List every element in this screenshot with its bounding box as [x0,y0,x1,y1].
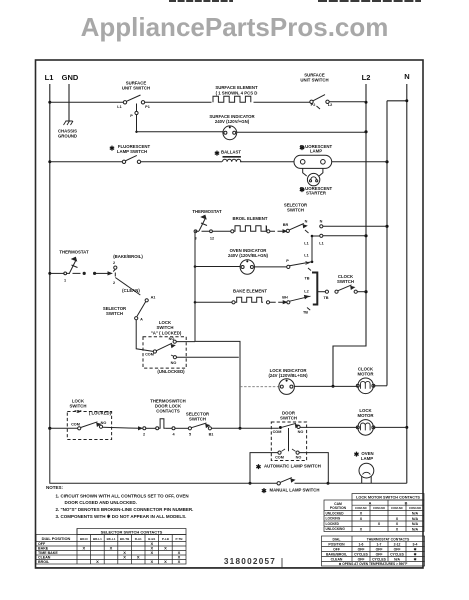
svg-text:A1: A1 [151,296,156,300]
svg-text:SWITCH: SWITCH [70,404,87,409]
svg-text:X: X [178,559,181,564]
svg-text:X: X [96,559,99,564]
svg-text:NO: NO [296,456,302,460]
svg-text:STARTER: STARTER [306,191,327,196]
svg-text:COM: COM [71,423,80,427]
svg-text:POSITION: POSITION [328,543,345,547]
svg-text:UNIT SWITCH: UNIT SWITCH [122,86,150,91]
svg-text:X: X [360,527,363,531]
svg-text:DIAL POSITION: DIAL POSITION [42,536,71,541]
svg-text:L1: L1 [319,242,323,246]
svg-text:THERMOSTAT CONTACTS: THERMOSTAT CONTACTS [367,537,410,541]
svg-text:TB: TB [323,296,328,300]
svg-text:5: 5 [189,433,191,437]
svg-text:L1: L1 [304,242,308,246]
svg-text:X: X [378,522,381,526]
svg-text:✱: ✱ [214,150,220,158]
svg-text:L1: L1 [45,73,54,82]
svg-text:UNLOCKING: UNLOCKING [326,527,346,531]
svg-text:SWITCH: SWITCH [157,325,174,330]
svg-text:NO: NO [169,337,175,341]
svg-text:4: 4 [172,433,175,437]
svg-text:"B": "B" [74,409,81,414]
svg-text:NO: NO [101,421,107,425]
svg-text:L2: L2 [304,290,308,294]
svg-text:NO: NO [171,361,177,365]
svg-text:X: X [360,517,363,521]
svg-text:N/A: N/A [412,517,419,521]
svg-text:GND: GND [62,73,79,82]
svg-text:✱: ✱ [414,558,417,562]
svg-text:L1: L1 [117,105,121,109]
svg-text:CYCLES: CYCLES [390,553,404,557]
svg-text:BK-TB: BK-TB [120,537,130,541]
svg-text:B1: B1 [209,433,214,437]
svg-text:COM-NO: COM-NO [373,506,386,510]
svg-text:LAMP: LAMP [310,149,322,154]
svg-text:✱: ✱ [256,463,262,471]
svg-text:POSITION: POSITION [330,506,347,510]
svg-text:L2: L2 [328,103,332,107]
svg-text:X: X [164,559,167,564]
svg-text:X: X [396,527,399,531]
svg-text:THERMOSTAT: THERMOSTAT [192,209,222,214]
svg-text:MANUAL LAMP SWITCH: MANUAL LAMP SWITCH [270,488,320,493]
svg-text:"A" ( LOCKED): "A" ( LOCKED) [151,331,182,336]
svg-text:OFF: OFF [394,548,401,552]
svg-text:OFF: OFF [358,548,365,552]
svg-text:P-TB: P-TB [176,537,184,541]
svg-text:LAMP SWITCH: LAMP SWITCH [117,149,147,154]
svg-text:OFF: OFF [358,558,365,562]
svg-text:1: 1 [64,279,66,283]
svg-text:NO: NO [298,430,304,434]
svg-text:COM: COM [273,430,282,434]
svg-text:12: 12 [210,237,214,241]
svg-text:✱: ✱ [299,144,305,152]
svg-text:BK-L1: BK-L1 [107,537,116,541]
svg-text:P: P [130,114,133,118]
svg-text:BAKE ELEMENT: BAKE ELEMENT [233,289,267,294]
svg-text:BR-N: BR-N [80,537,88,541]
svg-text:BALLAST: BALLAST [221,150,241,155]
svg-text:TB: TB [304,277,309,281]
svg-text:2: 2 [113,281,115,285]
svg-text:2. "NO"S" DENOTES BROKEN-LI: 2. "NO"S" DENOTES BROKEN-LINE CONNECTOR … [56,507,194,512]
svg-text:SWITCH: SWITCH [287,208,304,213]
svg-text:NOTES:: NOTES: [46,485,64,490]
svg-text:LOCKED: LOCKED [326,522,340,526]
svg-text:THERMOSTAT: THERMOSTAT [59,250,89,255]
svg-text:X: X [150,559,153,564]
svg-text:✱: ✱ [109,145,115,153]
svg-text:MOTOR: MOTOR [358,413,375,418]
svg-text:L1: L1 [304,254,308,258]
svg-text:(CLEAN): (CLEAN) [122,288,140,293]
svg-text:BR: BR [283,223,289,227]
svg-text:( LOCKED): ( LOCKED) [89,411,112,416]
svg-text:BAKE/BROIL: BAKE/BROIL [326,553,347,557]
svg-text:✱: ✱ [414,553,417,557]
svg-text:(BAKE/BROIL): (BAKE/BROIL) [113,254,143,259]
svg-text:N: N [404,72,409,81]
svg-text:CLEAN: CLEAN [331,558,343,562]
svg-text:CONTACTS: CONTACTS [156,409,180,414]
svg-text:LOCKING: LOCKING [326,517,341,521]
svg-text:OFF: OFF [376,553,383,557]
svg-text:X: X [360,512,363,516]
svg-text:A: A [140,318,143,322]
svg-text:240V (120V/+GN): 240V (120V/+GN) [215,119,250,124]
svg-text:N/A: N/A [412,512,419,516]
svg-text:BH: BH [282,296,288,300]
svg-text:✱: ✱ [261,487,267,495]
svg-text:SELECTOR SWITCH CONTACTS: SELECTOR SWITCH CONTACTS [101,530,163,535]
svg-text:1-7: 1-7 [377,543,382,547]
svg-text:X: X [110,546,113,551]
svg-text:(24V (120V/BL+GN): (24V (120V/BL+GN) [268,373,308,378]
svg-text:B: B [405,501,408,505]
svg-text:TB: TB [303,311,308,315]
svg-text:318002057: 318002057 [224,557,276,566]
svg-text:BROIL: BROIL [38,560,50,564]
svg-text:X: X [150,550,153,555]
svg-text:P: P [286,259,289,263]
svg-text:SURFACE ELEMENT: SURFACE ELEMENT [215,85,258,90]
svg-text:DIAL: DIAL [333,537,341,541]
svg-text:UNLOCKED: UNLOCKED [326,511,345,515]
svg-text:OFF: OFF [376,548,383,552]
svg-text:240V (120V/BL+GN): 240V (120V/BL+GN) [228,253,269,258]
svg-text:N/A: N/A [394,558,400,562]
svg-text:TIME BAKE: TIME BAKE [38,551,58,555]
svg-text:CYCLES: CYCLES [354,553,368,557]
svg-text:SWITCH: SWITCH [280,416,297,421]
svg-text:P1: P1 [145,105,150,109]
svg-text:COM: COM [145,353,154,357]
svg-text:✱: ✱ [354,451,360,459]
svg-text:R-A1: R-A1 [135,537,142,541]
svg-text:OFF: OFF [333,548,340,552]
svg-text:✱: ✱ [299,186,305,194]
svg-text:✱ OPENS AT OVEN TEMPERATUR: ✱ OPENS AT OVEN TEMPERATURES > 590°F [339,562,408,566]
svg-text:LAMP: LAMP [361,456,373,461]
svg-text:3. COMPONENTS WITH ✱ DO N: 3. COMPONENTS WITH ✱ DO NOT APPEAR IN AL… [56,514,187,519]
svg-text:DOOR CLOSED AND UNLOCKED.: DOOR CLOSED AND UNLOCKED. [65,500,137,505]
svg-text:2: 2 [113,261,115,265]
svg-text:UNIT SWITCH: UNIT SWITCH [300,78,328,83]
svg-text:MOTOR: MOTOR [358,372,375,377]
svg-text:X: X [82,546,85,551]
svg-text:SWITCH: SWITCH [337,279,354,284]
svg-text:3: 3 [194,237,196,241]
svg-text:X: X [123,555,126,560]
svg-text:3-4: 3-4 [413,543,418,547]
svg-text:1-6: 1-6 [359,543,364,547]
svg-text:X: X [396,517,399,521]
svg-text:CYCLES: CYCLES [372,558,386,562]
svg-text:OFF: OFF [38,542,46,546]
svg-text:CLEAN: CLEAN [38,556,51,560]
svg-text:BROIL ELEMENT: BROIL ELEMENT [232,216,267,221]
svg-text:X: X [137,555,140,560]
svg-text:N/A: N/A [412,522,419,526]
svg-text:( 1 SHOWN, 4 PCS D: ( 1 SHOWN, 4 PCS D [216,91,258,96]
svg-text:X: X [164,546,167,551]
svg-text:2: 2 [143,433,145,437]
svg-text:GROUND: GROUND [58,134,77,139]
svg-text:P2: P2 [311,103,316,107]
svg-text:AUTOMATIC LAMP SWITCH: AUTOMATIC LAMP SWITCH [264,464,321,469]
svg-text:P-LB: P-LB [162,537,170,541]
svg-text:L2: L2 [362,73,371,82]
svg-text:N: N [320,220,323,224]
svg-text:2-12: 2-12 [394,543,401,547]
svg-text:COM: COM [275,456,284,460]
svg-text:BR-L1: BR-L1 [93,537,102,541]
svg-text:COM-NO: COM-NO [409,506,422,510]
svg-text:SWITCH: SWITCH [189,417,206,422]
svg-text:LOCK MOTOR SWITCH CONTACTS: LOCK MOTOR SWITCH CONTACTS [356,496,420,500]
svg-text:1. CIRCUIT SHOWN WITH ALL: 1. CIRCUIT SHOWN WITH ALL CONTROLS SET T… [56,494,189,499]
svg-text:N/A: N/A [412,527,419,531]
svg-text:X: X [396,522,399,526]
svg-text:COM-NC: COM-NC [391,506,404,510]
svg-text:SWITCH: SWITCH [106,311,123,316]
svg-text:✱: ✱ [414,548,417,552]
svg-text:A: A [369,501,372,505]
svg-text:COM-NC: COM-NC [355,506,368,510]
svg-text:(UNLOCKED): (UNLOCKED) [157,369,185,374]
svg-text:N: N [305,220,308,224]
svg-text:BAKE: BAKE [38,547,49,551]
